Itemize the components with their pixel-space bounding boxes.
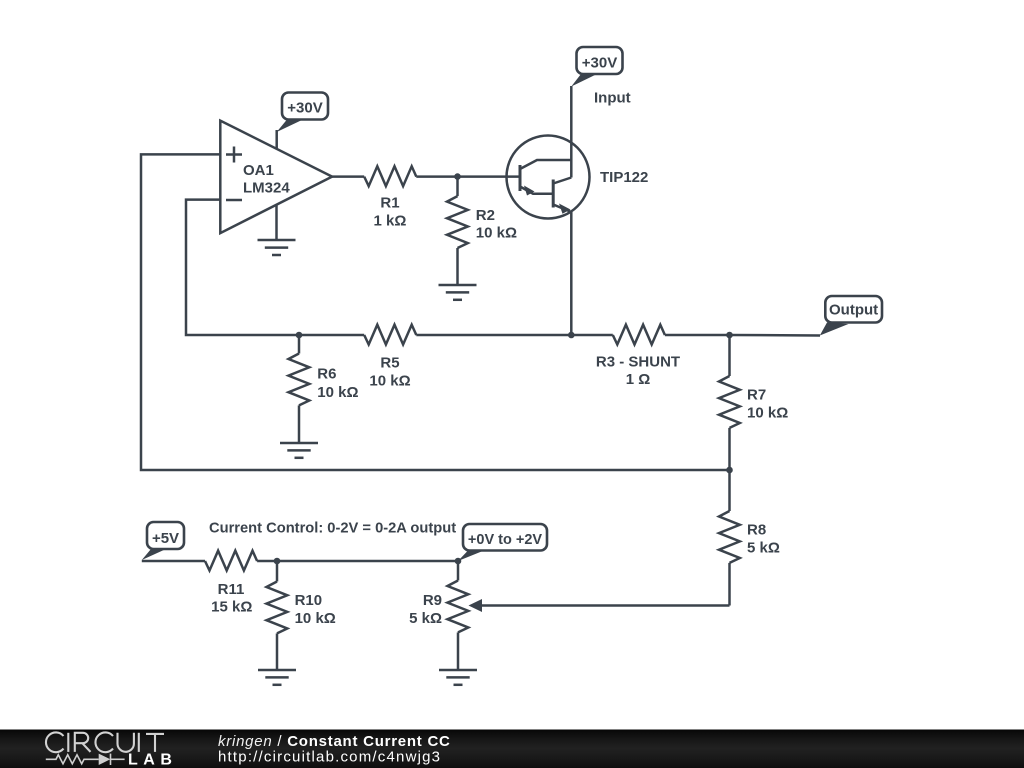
svg-text:R6: R6 [317,366,336,383]
bus wire R5 to R3 [416,334,613,337]
svg-text:5 kΩ: 5 kΩ [747,539,780,556]
wire R1 to transistor base [416,175,520,178]
op-amp plus symbol [226,147,242,163]
svg-text:10 kΩ: 10 kΩ [317,384,358,401]
resistor R10 [267,561,288,670]
svg-text:10 kΩ: 10 kΩ [295,610,336,627]
ground under R10 [258,670,296,685]
op-amp U1 triangle [220,121,332,234]
wire from + input to left vertical [141,154,730,470]
svg-text:http://circuitlab.com/c4nwjg3: http://circuitlab.com/c4nwjg3 [218,749,441,766]
svg-text:Output: Output [829,302,878,319]
svg-text:Current Control: 0-2V = 0-2A o: Current Control: 0-2V = 0-2A output [209,520,456,536]
wire from - input down to bus [186,200,364,335]
resistor R7 [719,335,740,470]
svg-text:10 kΩ: 10 kΩ [476,225,517,242]
svg-text:R3 - SHUNT: R3 - SHUNT [596,353,680,370]
svg-text:R9: R9 [423,592,442,609]
svg-text:Input: Input [594,90,631,107]
resistor R5 [364,325,416,345]
power flag +30V at op-amp [277,93,328,150]
wire +5V to R11 [142,560,205,563]
transistor Q1 TIP122 darlington [507,136,590,219]
node at R7/R8 junction [726,467,733,474]
emitter wire down to bus [570,212,573,335]
wire R3 to output node [665,334,730,337]
logo CIRCUIT text [46,732,164,752]
wire op-amp output to R1 [332,175,364,178]
ground under op-amp [258,205,296,256]
svg-text:+5V: +5V [152,530,179,547]
svg-text:kringen / Constant Current CC: kringen / Constant Current CC [218,733,451,750]
resistor R2 [447,177,468,285]
resistor R6 [289,335,310,443]
svg-text:R5: R5 [380,354,399,371]
svg-text:R11: R11 [218,581,245,598]
svg-text:5 kΩ: 5 kΩ [409,610,442,627]
svg-text:TIP122: TIP122 [600,169,648,186]
node at emitter/bus junction [568,332,575,339]
svg-text:10 kΩ: 10 kΩ [369,373,410,390]
op-amp minus symbol [226,199,242,202]
resistor R11 [205,551,257,571]
wiper arrow into R9 [469,599,483,612]
node at R2 top [454,173,461,180]
svg-text:OA1: OA1 [243,162,274,179]
power flag +0V to +2V [458,524,547,561]
node at R9 top [455,558,462,565]
ground under R6 [280,443,318,458]
node at R10 top [274,558,281,565]
wire to output flag [730,334,821,337]
potentiometer R9 [448,561,469,670]
wire R8 bottom to R9 wiper [481,604,730,607]
ground under R9 [439,670,477,685]
svg-text:LAB: LAB [128,752,177,768]
output flag [820,296,882,336]
svg-text:1 Ω: 1 Ω [626,371,651,388]
node at R6 top [296,332,303,339]
svg-text:+0V to +2V: +0V to +2V [468,532,542,548]
svg-text:R7: R7 [747,386,766,403]
node at R7 top [726,332,733,339]
svg-text:15 kΩ: 15 kΩ [211,599,252,616]
ground under R2 [439,285,477,300]
power flag +30V at collector [571,47,622,87]
svg-text:1 kΩ: 1 kΩ [374,212,407,229]
logo diode symbol [46,754,125,765]
svg-text:R1: R1 [380,195,399,212]
svg-text:+30V: +30V [582,55,617,72]
svg-text:+30V: +30V [287,100,322,117]
svg-text:R10: R10 [295,592,323,609]
resistor R8 [719,470,740,606]
svg-text:R2: R2 [476,207,495,224]
svg-text:R8: R8 [747,521,766,538]
resistor R3 shunt [613,325,665,345]
svg-text:LM324: LM324 [243,180,290,197]
footer bar [0,730,1024,768]
power flag +5V [142,522,184,560]
svg-text:10 kΩ: 10 kΩ [747,404,788,421]
wire R11 to R9 top [257,560,458,563]
resistor R1 [364,166,416,186]
collector wire from +30V [570,86,573,178]
